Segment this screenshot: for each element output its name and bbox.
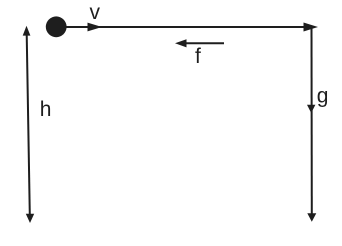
arrowhead: end of v arrow (top-right) [304,23,319,32]
svg-text:f: f [195,45,201,68]
ball [46,16,67,37]
arrowhead: mid marker of v arrow [88,23,103,32]
arrow g (vertical, right) [307,27,316,222]
wire: top horizontal line [64,26,313,28]
arrow f (friction, pointing left) [175,39,224,47]
svg-text:g: g [317,84,329,107]
arrow h (double-headed vertical, left) [23,26,35,223]
svg-text:v: v [90,1,101,24]
svg-text:h: h [40,98,52,121]
